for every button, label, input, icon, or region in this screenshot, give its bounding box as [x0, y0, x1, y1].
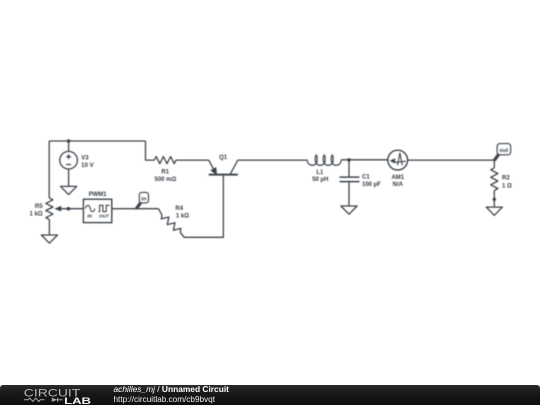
wire R1 to Q1 emitter	[176, 159, 209, 161]
in flag pointer	[135, 202, 142, 210]
transistor Q1 (PNP)	[209, 160, 238, 175]
svg-text:1 kΩ: 1 kΩ	[176, 213, 189, 219]
svg-text:10 V: 10 V	[81, 163, 93, 169]
ammeter AM1	[388, 150, 408, 170]
svg-text:1 Ω: 1 Ω	[502, 184, 512, 190]
wire R5 bottom lead	[48, 220, 50, 236]
svg-text:IN: IN	[87, 214, 92, 219]
svg-text:100 µF: 100 µF	[362, 182, 381, 188]
R5 wiper arrow	[60, 208, 83, 210]
wire AM1 to out	[408, 159, 495, 161]
wire V3 bottom lead	[68, 169, 70, 186]
CircuitLab logo	[0, 385, 100, 405]
svg-text:LAB: LAB	[64, 394, 91, 405]
capacitor C1	[348, 160, 350, 177]
wire top rail corner to R1	[146, 141, 155, 160]
wire left drop to R5	[48, 141, 50, 198]
svg-text:V3: V3	[81, 155, 89, 161]
wire L1 to AM1	[341, 159, 388, 161]
PWM1 sine glyph	[86, 205, 95, 211]
svg-text:R4: R4	[175, 206, 183, 212]
resistor R2	[493, 160, 495, 168]
wire R4 to Q1 base	[180, 175, 223, 237]
resistor R4	[159, 209, 163, 216]
resistor R1	[154, 157, 176, 164]
svg-text:in: in	[141, 196, 147, 202]
svg-text:N/A: N/A	[393, 182, 404, 188]
wire PWM1 output	[112, 208, 159, 210]
net flag "in"	[139, 192, 148, 203]
wire top rail	[49, 140, 145, 142]
footer bar	[0, 385, 540, 405]
svg-text:OUT: OUT	[99, 214, 110, 219]
net flag "out"	[497, 144, 511, 155]
svg-text:R1: R1	[161, 169, 169, 175]
svg-text:R2: R2	[502, 176, 510, 182]
node top-rail junction	[67, 139, 71, 143]
svg-text:Q1: Q1	[219, 155, 228, 161]
svg-text:50 µH: 50 µH	[312, 177, 328, 183]
node wiper junction	[67, 207, 71, 211]
svg-text:R5: R5	[35, 204, 43, 210]
svg-text:1 kΩ: 1 kΩ	[29, 211, 42, 217]
ground below R5	[41, 235, 57, 243]
potentiometer R5	[46, 198, 53, 220]
svg-text:500 mΩ: 500 mΩ	[154, 177, 176, 183]
ground below R2	[486, 207, 502, 215]
wire V3 top lead	[68, 141, 70, 151]
ground below C1	[341, 206, 357, 214]
voltage source V3	[60, 151, 78, 169]
node C1 junction	[347, 158, 351, 162]
ground below V3	[61, 186, 77, 194]
svg-text:C1: C1	[362, 175, 370, 181]
svg-text:out: out	[500, 148, 509, 154]
PWM source PWM1 box	[83, 199, 111, 222]
svg-text:AM1: AM1	[391, 175, 404, 181]
PWM1 square-wave glyph	[98, 205, 109, 211]
footer text	[114, 385, 229, 403]
inductor L1	[307, 155, 341, 165]
node R2-ground junction	[493, 198, 496, 201]
wire Q1 collector	[238, 159, 307, 161]
svg-text:PWM1: PWM1	[89, 192, 108, 198]
out flag pointer	[493, 153, 500, 161]
svg-text:L1: L1	[316, 170, 324, 176]
